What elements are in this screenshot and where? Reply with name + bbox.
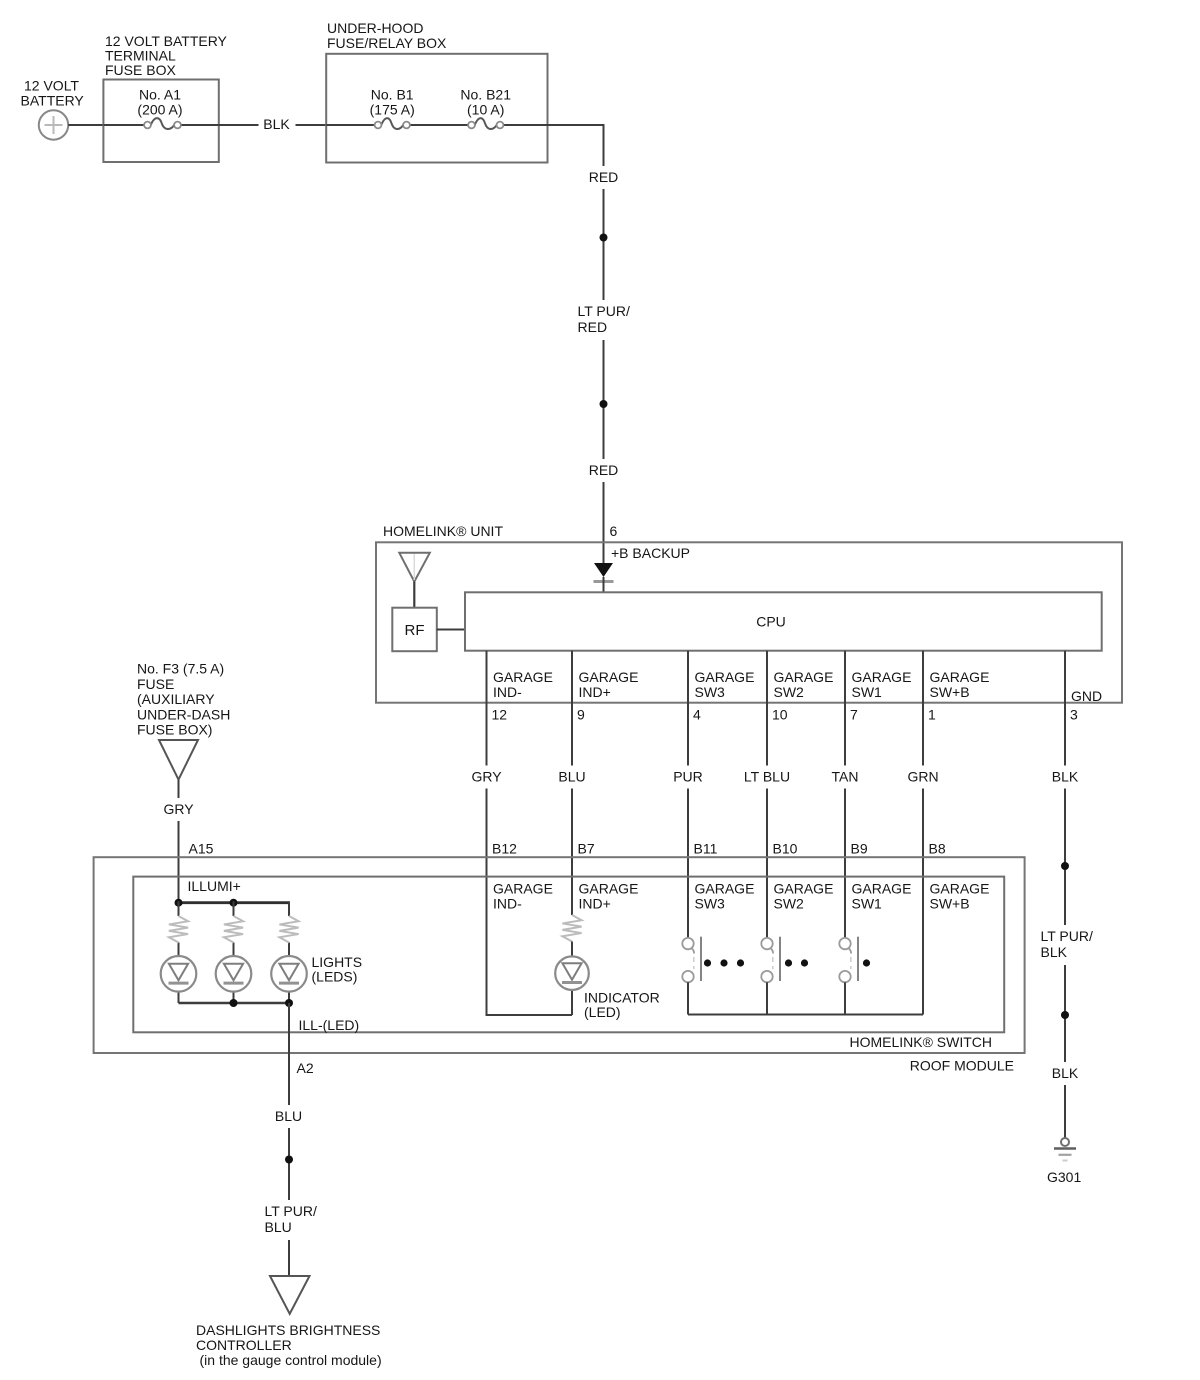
wire RED vertical trunk [603,124,605,563]
wire color label PUR [670,766,706,789]
label GARAGE IND- (unit) [493,669,553,700]
svg-text:BATTERY: BATTERY [21,93,85,109]
svg-text:GARAGE: GARAGE [493,669,553,685]
svg-text:A2: A2 [297,1060,314,1076]
svg-text:BLK: BLK [1041,944,1068,960]
wire GARAGE IND- bottom [486,1014,488,1015]
12 volt battery terminal fuse box [103,80,218,163]
under-hood fuse/relay box [326,54,547,163]
junction dot A2 wire [285,1156,293,1164]
ROOF MODULE box [94,857,1025,1053]
resistor light 1 [169,916,188,943]
svg-text:IND-: IND- [493,684,522,700]
svg-text:DASHLIGHTS BRIGHTNESS: DASHLIGHTS BRIGHTNESS [196,1322,380,1338]
svg-text:GND: GND [1071,688,1102,704]
wire light branch 1 [178,901,180,916]
svg-text:BLU: BLU [265,1219,292,1235]
svg-text:BLK: BLK [1052,1065,1079,1081]
wire switch bottom bus [688,1014,923,1016]
junction dot trunk lower [600,400,608,408]
svg-text:LT PUR/: LT PUR/ [578,303,630,319]
label LIGHTS (LEDS) [312,954,363,985]
svg-text:RF: RF [405,622,425,639]
switch GARAGE SW2 [761,937,808,983]
svg-text:B12: B12 [492,841,517,857]
wire ILL- bottom bus [179,1002,290,1004]
svg-text:GRY: GRY [163,801,194,817]
svg-text:7: 7 [850,707,858,723]
svg-text:GARAGE: GARAGE [774,881,834,897]
svg-text:PUR: PUR [673,769,703,785]
junction dot trunk upper [600,234,608,242]
svg-text:12: 12 [492,707,508,723]
wire light branch 2 [233,901,235,916]
svg-text:6: 6 [610,523,618,539]
svg-text:GARAGE: GARAGE [930,881,990,897]
wire ILL- to A2 [288,1003,290,1276]
svg-text:GARAGE: GARAGE [695,669,755,685]
svg-text:ILL-(LED): ILL-(LED) [299,1017,360,1033]
svg-text:A15: A15 [189,841,214,857]
svg-text:B9: B9 [851,841,868,857]
wire switch SW3 bottom [687,982,689,1014]
svg-text:(in the gauge control module): (in the gauge control module) [200,1352,382,1368]
svg-text:12 VOLT: 12 VOLT [24,78,79,94]
label DASHLIGHTS BRIGHTNESS CONTROLLER [196,1322,382,1368]
svg-text:GRN: GRN [907,769,938,785]
svg-text:10: 10 [772,707,788,723]
wire color label BLK [1048,766,1082,789]
diode D1 [594,563,614,592]
svg-text:FUSE BOX: FUSE BOX [105,62,176,78]
svg-text:SW+B: SW+B [930,684,970,700]
wire label LT PUR/RED [574,300,636,340]
svg-text:BLU: BLU [558,769,585,785]
junction dot bottom bus exit [285,999,293,1007]
svg-text:GARAGE: GARAGE [852,669,912,685]
label GARAGE SW1 (switch) [852,881,912,912]
svg-text:GRY: GRY [471,769,502,785]
svg-text:1: 1 [928,707,936,723]
resistor light 3 [279,916,298,943]
switch GARAGE SW1 [839,937,870,983]
LED light 3 [271,956,307,992]
fuse No. B1 (175 A) [370,87,415,130]
junction dot BLK lower [1061,1011,1069,1019]
wire color label BLU [555,766,589,789]
svg-text:No. F3 (7.5 A): No. F3 (7.5 A) [137,661,224,677]
svg-text:GARAGE: GARAGE [579,669,639,685]
svg-text:(200 A): (200 A) [137,102,182,118]
svg-text:SW2: SW2 [774,684,805,700]
label GARAGE SW2 (unit) [774,669,834,700]
label GARAGE SW1 (unit) [852,669,912,700]
resistor light 2 [224,916,243,943]
wire color label GRY [469,766,505,789]
wire CPU pin 3 (GND) [1064,651,1066,1138]
svg-text:FUSE/RELAY BOX: FUSE/RELAY BOX [327,35,447,51]
label GARAGE IND+ (unit) [579,669,639,700]
label terminal fuse box [105,33,228,78]
svg-text:No. A1: No. A1 [139,87,181,103]
battery 12V B+ terminal [39,110,68,139]
wire color label LT BLU [741,766,793,789]
svg-text:HOMELINK® SWITCH: HOMELINK® SWITCH [849,1034,992,1050]
switch GARAGE SW3 [682,937,744,983]
svg-text:BLK: BLK [263,116,290,132]
svg-text:BLK: BLK [1052,769,1079,785]
svg-text:GARAGE: GARAGE [930,669,990,685]
svg-text:SW3: SW3 [695,684,726,700]
HOMELINK SWITCH box [133,877,1004,1033]
wire label BLK [259,113,296,136]
svg-text:(AUXILIARY: (AUXILIARY [137,691,215,707]
svg-text:RED: RED [589,169,619,185]
svg-text:FUSE: FUSE [137,676,174,692]
svg-text:(10 A): (10 A) [467,102,504,118]
svg-text:IND-: IND- [493,896,522,912]
label GARAGE IND+ (switch) [579,881,639,912]
wire label RED lower [586,459,622,482]
wire label RED [586,166,622,189]
wire CPU pin 9 (GARAGE IND+) [571,651,573,915]
label GARAGE SW2 (switch) [774,881,834,912]
svg-text:B10: B10 [773,841,798,857]
svg-text:(LED): (LED) [584,1004,621,1020]
svg-text:B8: B8 [929,841,946,857]
svg-text:G301: G301 [1047,1169,1081,1185]
wire label GRY [160,798,197,821]
label GARAGE SW+B (switch) [930,881,990,912]
svg-text:UNDER-DASH: UNDER-DASH [137,706,230,722]
destination triangle dashlights [270,1276,310,1314]
label under-hood fuse/relay box [327,20,447,51]
wire CPU pin 1 (GARAGE SW+B) [922,651,924,1015]
svg-text:GARAGE: GARAGE [579,881,639,897]
wire F3 to roof module [178,780,180,903]
wire light branch 3 [288,901,290,916]
svg-text:ROOF MODULE: ROOF MODULE [910,1058,1014,1074]
wire ILLUMI+ top bus [179,901,290,904]
svg-text:BLU: BLU [275,1108,302,1124]
wire CPU pin 12 (GARAGE IND-) [486,651,488,1015]
svg-text:LT PUR/: LT PUR/ [265,1203,317,1219]
svg-text:GARAGE: GARAGE [852,881,912,897]
wire indicator [571,942,573,957]
svg-text:HOMELINK® UNIT: HOMELINK® UNIT [383,523,503,539]
svg-text:GARAGE: GARAGE [493,881,553,897]
label INDICATOR (LED) [584,990,660,1021]
svg-text:RED: RED [578,319,608,335]
wire RF to CPU [437,629,465,631]
svg-text:IND+: IND+ [579,684,611,700]
wire label BLU [271,1105,306,1128]
svg-text:SW1: SW1 [852,896,883,912]
LED light 1 [161,956,197,992]
label 12 VOLT BATTERY [21,78,85,109]
wire color label TAN [828,766,863,789]
svg-text:GARAGE: GARAGE [774,669,834,685]
wire CPU pin 4 (GARAGE SW3) [687,651,689,938]
svg-text:CPU: CPU [756,614,786,630]
svg-text:FUSE BOX): FUSE BOX) [137,722,212,738]
svg-text:SW+B: SW+B [930,896,970,912]
wire label LT PUR/BLK [1037,925,1099,965]
wire color label GRN [904,766,942,789]
svg-text:B11: B11 [694,841,718,857]
fuse No. A1 (200 A) [137,87,182,130]
svg-text:9: 9 [577,707,585,723]
wire battery to terminal fuse box [68,124,103,126]
wire CPU pin 7 (GARAGE SW1) [844,651,846,938]
ground symbol G301 [1054,1138,1076,1161]
wire through fuse box A1 [103,124,144,126]
wire inside under-hood box [326,124,374,126]
svg-text:4: 4 [693,707,701,723]
resistor indicator [562,915,581,942]
junction dot bus branch 2 [230,899,238,907]
label GARAGE SW3 (unit) [695,669,755,700]
svg-text:IND+: IND+ [579,896,611,912]
svg-text:(LEDS): (LEDS) [312,969,358,985]
wire BLK fuse box to under-hood box [219,124,326,126]
label No. F3 fuse [137,661,230,738]
wire switch SW2 bottom [766,982,768,1014]
source triangle from F3 fuse [159,740,198,780]
svg-text:(175 A): (175 A) [370,102,415,118]
wire label BLK lower [1048,1062,1083,1085]
wire CPU pin 10 (GARAGE SW2) [766,651,768,938]
svg-text:RED: RED [589,462,619,478]
svg-text:B7: B7 [578,841,595,857]
svg-text:LT PUR/: LT PUR/ [1041,928,1093,944]
svg-text:SW2: SW2 [774,896,805,912]
HOMELINK UNIT box [376,542,1122,702]
RF module box [392,608,437,652]
label GARAGE SW+B (unit) [930,669,990,700]
fuse No. B21 (10 A) [460,87,511,130]
CPU box [465,592,1102,650]
svg-text:UNDER-HOOD: UNDER-HOOD [327,20,423,36]
wire switch SW1 bottom [844,982,846,1014]
LED indicator [555,956,589,990]
svg-text:CONTROLLER: CONTROLLER [196,1337,292,1353]
svg-text:GARAGE: GARAGE [695,881,755,897]
label GARAGE IND- (switch) [493,881,553,912]
svg-text:3: 3 [1070,707,1078,723]
wire under-hood box to vertical trunk [548,124,605,126]
svg-text:+B BACKUP: +B BACKUP [611,545,690,561]
antenna [399,553,430,608]
svg-text:No. B1: No. B1 [371,87,414,103]
svg-text:SW3: SW3 [695,896,726,912]
svg-text:LT BLU: LT BLU [744,769,790,785]
svg-text:SW1: SW1 [852,684,883,700]
wire label LT PUR/BLU [261,1200,323,1240]
label GARAGE SW3 (switch) [695,881,755,912]
junction dot bottom bus branch 2 [230,999,238,1007]
junction dot bus A15 [175,899,183,907]
junction dot BLK upper [1061,862,1069,870]
svg-text:ILLUMI+: ILLUMI+ [188,878,241,894]
LED light 2 [216,956,252,992]
svg-text:No. B21: No. B21 [460,87,511,103]
svg-text:TAN: TAN [832,769,859,785]
